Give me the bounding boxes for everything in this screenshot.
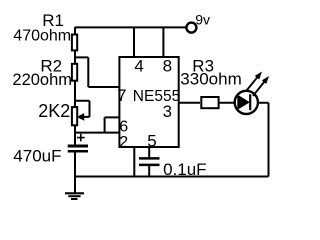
svg-text:4: 4 bbox=[134, 56, 143, 75]
svg-text:5: 5 bbox=[147, 132, 156, 151]
svg-text:NE555: NE555 bbox=[133, 88, 180, 105]
svg-text:9v: 9v bbox=[195, 12, 210, 28]
svg-text:470ohm: 470ohm bbox=[13, 28, 71, 45]
svg-text:2K2: 2K2 bbox=[38, 101, 70, 121]
svg-text:8: 8 bbox=[163, 56, 172, 75]
svg-text:2: 2 bbox=[119, 134, 128, 151]
svg-text:0.1uF: 0.1uF bbox=[163, 160, 206, 179]
svg-text:470uF: 470uF bbox=[13, 147, 61, 166]
svg-text:3: 3 bbox=[163, 103, 172, 121]
svg-text:330ohm: 330ohm bbox=[180, 70, 241, 89]
svg-text:7: 7 bbox=[117, 87, 126, 105]
svg-text:220ohm: 220ohm bbox=[12, 71, 72, 89]
